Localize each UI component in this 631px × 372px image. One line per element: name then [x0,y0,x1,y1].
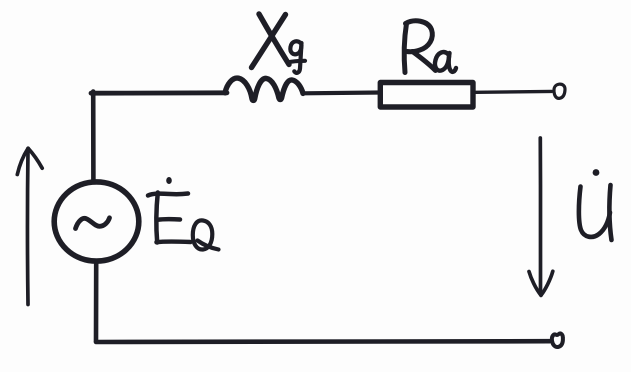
label E_Q (letter E) [148,193,191,243]
resistor Ra (rectangle body) [380,83,473,108]
label E_Q (subscript Q) [193,220,219,249]
label Xq [252,14,290,68]
terminal top-right (open circle) [554,84,565,98]
wire resistor to top-right terminal [476,90,552,94]
label U (letter U) [579,185,612,240]
arrow (EMF direction, left side, pointing up) [17,148,42,304]
wire left vertical (source top lead) [91,92,96,182]
inductor Xq (3-hump coil) [225,78,303,100]
wire bottom horizontal [96,339,550,344]
arrow (voltage U, right side, pointing down) [529,138,553,295]
label U (dot) [593,169,600,176]
label Ra [404,21,435,73]
label E_Q (dot) [166,177,172,184]
ac source tilde symbol [76,218,110,229]
ac source E_Q (circle) [54,182,139,261]
wire source bottom lead [94,263,99,342]
terminal bottom-right (open circle) [552,333,563,347]
wire inductor to resistor [303,90,381,95]
wire top-left horizontal (node from source top to inductor) [91,90,227,95]
